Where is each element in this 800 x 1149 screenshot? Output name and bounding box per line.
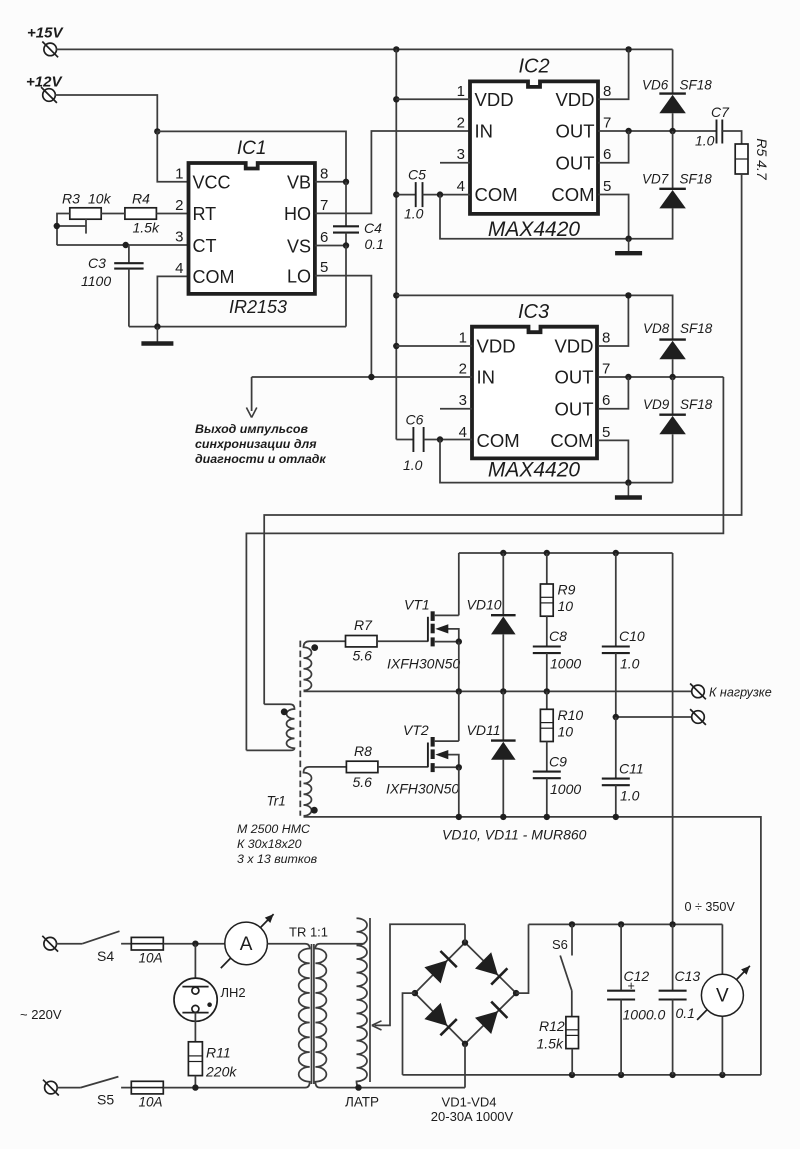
- label 0-350V: [685, 900, 736, 914]
- svg-text:4: 4: [175, 260, 183, 277]
- resistor R3 (trimmer): [54, 191, 112, 246]
- svg-text:6: 6: [602, 392, 610, 409]
- switch S6: [552, 924, 572, 1016]
- svg-text:VD11: VD11: [467, 722, 501, 738]
- wire IC2 COM rail: [440, 195, 673, 242]
- resistor R9: [540, 553, 575, 647]
- wire CT node: [57, 242, 189, 248]
- svg-text:0.1: 0.1: [365, 236, 384, 252]
- terminal mains upper: [42, 936, 58, 952]
- svg-text:IR2153: IR2153: [229, 297, 287, 317]
- IC2 pin labels: [457, 83, 612, 205]
- wire +12V to VCC: [157, 131, 188, 181]
- svg-text:6: 6: [320, 229, 328, 246]
- svg-text:C10: C10: [619, 628, 645, 644]
- capacitor C6: [396, 412, 472, 474]
- svg-text:10: 10: [558, 598, 574, 614]
- terminal load upper: [690, 684, 706, 700]
- svg-text:R9: R9: [558, 582, 576, 598]
- wire fuse to ammeter: [163, 941, 225, 947]
- TR primary winding: [299, 944, 310, 1088]
- wire LO to IC3 IN: [315, 276, 372, 377]
- Tr1 secondary winding 1: [304, 641, 346, 690]
- svg-text:1100: 1100: [81, 273, 111, 289]
- svg-text:R3: R3: [62, 191, 80, 207]
- svg-text:5: 5: [603, 178, 611, 195]
- svg-text:VT1: VT1: [404, 597, 430, 613]
- svg-text:IXFH30N50: IXFH30N50: [387, 656, 460, 672]
- wire IC2 pin3 stub: [440, 162, 470, 164]
- capacitor C13: [659, 924, 701, 1075]
- svg-text:1.0: 1.0: [620, 788, 640, 804]
- svg-text:0.1: 0.1: [676, 1005, 695, 1021]
- terminal +15V: [27, 25, 64, 58]
- resistor R11: [188, 1042, 237, 1088]
- svg-text:4: 4: [457, 178, 465, 195]
- svg-text:IC1: IC1: [237, 138, 267, 159]
- svg-text:VCC: VCC: [193, 173, 231, 193]
- svg-text:MAX4420: MAX4420: [488, 218, 581, 241]
- svg-text:К нагрузке: К нагрузке: [709, 686, 772, 700]
- svg-text:VDD: VDD: [554, 336, 593, 357]
- svg-text:COM: COM: [551, 184, 594, 205]
- diode VD11 MUR860: [467, 691, 516, 817]
- resistor R7: [346, 617, 428, 664]
- svg-text:C9: C9: [549, 754, 567, 770]
- op-amp IC1 IR2153 box: [189, 138, 315, 317]
- svg-text:Выход импульсов: Выход импульсов: [195, 422, 309, 436]
- svg-text:1: 1: [459, 330, 467, 347]
- svg-text:10: 10: [558, 724, 574, 740]
- wire IC3 COM rail: [440, 440, 673, 486]
- Tr1 winding data: [237, 822, 318, 866]
- svg-text:A: A: [240, 934, 253, 955]
- switch S5: [57, 1077, 119, 1108]
- resistor R8: [346, 743, 428, 790]
- lamp LN2: [174, 944, 246, 1042]
- wire IC3 pin3 stub: [440, 408, 472, 410]
- svg-text:5: 5: [602, 424, 610, 441]
- svg-text:+: +: [628, 979, 635, 993]
- svg-text:+12V: +12V: [26, 74, 63, 91]
- wire IC3 VDD pin1: [396, 345, 472, 347]
- svg-text:IN: IN: [477, 367, 496, 388]
- svg-text:5: 5: [320, 259, 328, 276]
- switch S4: [56, 931, 120, 964]
- wire ammeter to TR: [267, 943, 305, 945]
- svg-text:6: 6: [603, 146, 611, 163]
- LATR winding: [357, 918, 368, 1087]
- svg-text:5.6: 5.6: [353, 774, 373, 790]
- ammeter A: [221, 914, 274, 968]
- svg-text:VDD: VDD: [477, 336, 516, 357]
- svg-text:20-30A 1000V: 20-30A 1000V: [431, 1109, 514, 1124]
- load label: [709, 686, 772, 700]
- svg-text:VDD: VDD: [475, 89, 514, 110]
- svg-text:IXFH30N50: IXFH30N50: [386, 781, 459, 797]
- svg-text:2: 2: [459, 361, 467, 378]
- svg-text:C7: C7: [711, 104, 730, 120]
- svg-text:OUT: OUT: [554, 398, 593, 419]
- svg-text:~ 220V: ~ 220V: [20, 1007, 62, 1022]
- svg-text:COM: COM: [475, 184, 518, 205]
- resistor R12: [537, 1017, 579, 1075]
- driver IC3 MAX4420 box: [472, 301, 597, 482]
- svg-text:OUT: OUT: [555, 152, 594, 173]
- svg-text:VD8: VD8: [643, 321, 670, 336]
- capacitor C12: [607, 924, 665, 1075]
- svg-text:VS: VS: [287, 236, 311, 256]
- svg-text:COM: COM: [193, 267, 235, 287]
- svg-text:IC2: IC2: [518, 56, 549, 78]
- svg-text:8: 8: [320, 165, 328, 182]
- svg-text:S4: S4: [97, 948, 114, 964]
- svg-text:LO: LO: [287, 266, 311, 286]
- svg-text:1.5k: 1.5k: [133, 220, 160, 236]
- svg-text:VD6: VD6: [642, 78, 669, 93]
- capacitor C7: [695, 104, 742, 149]
- wire IC3 VDD pin8 rail: [396, 292, 672, 346]
- wire IC3 IN pin2: [252, 374, 472, 380]
- svg-text:1000: 1000: [550, 781, 581, 797]
- ground IC1: [141, 327, 173, 344]
- svg-text:1.0: 1.0: [695, 133, 715, 149]
- svg-text:10k: 10k: [88, 191, 112, 207]
- diode VD9 SF18: [643, 377, 713, 483]
- fuse FU2 10A: [121, 1081, 163, 1109]
- svg-text:1: 1: [175, 165, 183, 182]
- svg-text:1000.0: 1000.0: [623, 1007, 666, 1023]
- svg-text:C13: C13: [675, 968, 701, 984]
- svg-text:V: V: [716, 986, 729, 1007]
- svg-text:1.0: 1.0: [403, 457, 423, 473]
- capacitor C11: [602, 717, 644, 817]
- svg-text:VDD: VDD: [555, 89, 594, 110]
- svg-text:CT: CT: [193, 236, 217, 256]
- wire bridge bottom to LATR line: [464, 1044, 466, 1088]
- svg-text:3: 3: [457, 146, 465, 163]
- svg-text:7: 7: [603, 115, 611, 132]
- svg-text:VD10, VD11 - MUR860: VD10, VD11 - MUR860: [442, 827, 587, 843]
- svg-text:+15V: +15V: [27, 25, 64, 42]
- wire R5 to Tr1 primary top: [264, 174, 741, 704]
- terminal load lower: [690, 709, 706, 725]
- svg-text:R8: R8: [354, 743, 372, 759]
- svg-text:1: 1: [457, 83, 465, 100]
- wire mid rail to load: [304, 688, 693, 694]
- wire IC2 OUT pin7: [598, 128, 717, 134]
- wire COM to ground: [129, 276, 346, 329]
- svg-text:Tr1: Tr1: [267, 794, 286, 809]
- rectifier note: [442, 827, 587, 843]
- wire DC- rail: [403, 1072, 761, 1078]
- svg-text:C11: C11: [619, 761, 644, 777]
- transformer Tr1 core: [299, 641, 301, 816]
- svg-text:TR 1:1: TR 1:1: [289, 925, 328, 940]
- svg-text:3 х 13 витков: 3 х 13 витков: [237, 852, 318, 866]
- wire voltmeter column: [721, 924, 723, 1075]
- svg-text:R5 4.7: R5 4.7: [754, 138, 770, 180]
- wire VS pin6: [315, 242, 349, 326]
- svg-text:ЛН2: ЛН2: [221, 985, 246, 1000]
- svg-text:синхронизации для: синхронизации для: [195, 437, 317, 451]
- wire DC+ bus: [529, 921, 723, 927]
- wire bridge top feed: [464, 924, 466, 942]
- svg-text:1000: 1000: [550, 656, 581, 672]
- svg-text:220k: 220k: [205, 1064, 237, 1080]
- LATR wiper arrow: [372, 924, 465, 1030]
- svg-text:8: 8: [603, 83, 611, 100]
- ground IC2: [615, 239, 642, 254]
- TR core: [312, 944, 314, 1084]
- svg-text:ЛАТР: ЛАТР: [345, 1095, 379, 1110]
- svg-text:SF18: SF18: [680, 397, 713, 412]
- fuse FU1 10A: [121, 937, 163, 965]
- svg-text:10A: 10A: [139, 1095, 163, 1110]
- svg-text:3: 3: [459, 392, 467, 409]
- transformer TR label: [289, 925, 328, 940]
- wire IC3 OUT pin6: [598, 377, 628, 409]
- svg-text:MAX4420: MAX4420: [488, 459, 581, 482]
- LATR label: [345, 1095, 379, 1110]
- capacitor C5: [396, 167, 470, 222]
- capacitor C10: [602, 553, 645, 717]
- capacitor C3: [81, 245, 144, 327]
- svg-text:10A: 10A: [139, 951, 163, 966]
- wire bus to DC+ column: [672, 553, 674, 924]
- svg-text:C3: C3: [88, 255, 106, 271]
- LATR core: [369, 918, 371, 1082]
- terminal +12V: [26, 74, 63, 103]
- resistor R10: [540, 691, 583, 771]
- svg-text:М 2500 НМС: М 2500 НМС: [237, 822, 311, 836]
- wire IC3 OUT to Tr1 primary bottom: [246, 377, 723, 750]
- svg-text:VD1-VD4: VD1-VD4: [442, 1095, 497, 1110]
- svg-text:C6: C6: [406, 412, 424, 428]
- wire IC2 VDD pin1: [396, 98, 470, 100]
- wire +15V column: [393, 49, 399, 439]
- bridge rectifier VD1-VD4: [412, 939, 520, 1047]
- svg-text:OUT: OUT: [554, 367, 593, 388]
- svg-text:R12: R12: [539, 1018, 565, 1034]
- svg-text:0 ÷ 350V: 0 ÷ 350V: [685, 900, 736, 914]
- Tr1 secondary winding 2: [304, 767, 347, 816]
- svg-text:VD9: VD9: [643, 397, 670, 412]
- wire VT2 source to bottom rail: [458, 767, 460, 817]
- IC3 pin labels: [459, 330, 611, 452]
- wire bottom line to bridge: [320, 1084, 465, 1090]
- wire HO to IC2 IN: [315, 131, 470, 213]
- svg-text:VT2: VT2: [403, 722, 429, 738]
- diode VD6 SF18: [642, 49, 712, 131]
- wire VT1 drain to bus: [458, 553, 460, 615]
- svg-text:S5: S5: [97, 1092, 114, 1108]
- svg-text:C5: C5: [408, 167, 426, 183]
- svg-text:SF18: SF18: [680, 321, 713, 336]
- svg-text:7: 7: [320, 197, 328, 214]
- svg-text:C8: C8: [549, 628, 567, 644]
- label mains: [20, 1007, 62, 1022]
- terminal mains lower: [43, 1080, 59, 1096]
- transistor VT2 IXFH30N50: [386, 722, 462, 797]
- wire load lower: [613, 714, 693, 720]
- svg-text:IC3: IC3: [518, 301, 549, 323]
- wire top bus: [459, 550, 673, 556]
- svg-text:3: 3: [175, 229, 183, 246]
- svg-text:RT: RT: [193, 204, 217, 224]
- svg-text:1.0: 1.0: [404, 206, 424, 222]
- svg-text:2: 2: [175, 197, 183, 214]
- svg-text:2: 2: [457, 115, 465, 132]
- svg-text:5.6: 5.6: [353, 648, 373, 664]
- svg-text:SF18: SF18: [680, 172, 713, 187]
- Tr1 label: [267, 794, 286, 809]
- sync output arrow: [246, 377, 256, 418]
- driver IC2 MAX4420 box: [470, 56, 598, 242]
- ground IC3: [615, 483, 642, 498]
- bridge labels: [431, 1095, 514, 1125]
- wire VT1 source to mid rail: [458, 642, 460, 692]
- wire bridge DC-: [403, 993, 415, 1075]
- svg-text:C4: C4: [364, 220, 382, 236]
- svg-text:COM: COM: [550, 430, 593, 451]
- svg-text:R11: R11: [206, 1045, 231, 1061]
- wire +12V feed: [55, 95, 161, 135]
- svg-text:R7: R7: [354, 617, 373, 633]
- wire +12V to VB: [157, 131, 346, 181]
- capacitor C9: [533, 754, 582, 817]
- Tr1 primary winding: [246, 704, 294, 750]
- svg-text:SF18: SF18: [680, 78, 713, 93]
- wire bridge DC+: [516, 924, 528, 993]
- svg-text:7: 7: [602, 361, 610, 378]
- svg-text:HO: HO: [284, 204, 311, 224]
- resistor R4: [101, 191, 188, 236]
- wire VB pin8: [315, 179, 349, 185]
- capacitor C8: [533, 628, 582, 691]
- svg-text:R10: R10: [558, 707, 584, 723]
- sync output text: [195, 422, 326, 466]
- resistor R5: [735, 138, 770, 180]
- diode VD10 MUR860: [467, 553, 516, 691]
- svg-text:1.5k: 1.5k: [537, 1036, 564, 1052]
- IC1 pin labels: [175, 165, 328, 287]
- svg-text:8: 8: [602, 330, 610, 347]
- wire VT2 drain to mid rail: [458, 691, 460, 741]
- capacitor C4: [333, 182, 384, 252]
- TR secondary winding: [315, 944, 364, 1088]
- svg-text:VB: VB: [287, 173, 311, 193]
- wire bottom rail: [304, 814, 761, 1075]
- svg-text:R4: R4: [132, 191, 150, 207]
- svg-text:OUT: OUT: [555, 121, 594, 142]
- wire +15V rail: [56, 46, 673, 52]
- svg-text:S6: S6: [552, 937, 568, 952]
- svg-text:VD10: VD10: [467, 597, 502, 613]
- wire IC2 OUT pin6: [598, 131, 629, 163]
- diode VD7 SF18: [642, 131, 712, 208]
- svg-text:1.0: 1.0: [620, 656, 640, 672]
- wire IC2 VDD pin8: [598, 49, 629, 99]
- svg-text:IN: IN: [475, 121, 494, 142]
- svg-text:диагности и отладк: диагности и отладк: [195, 452, 326, 466]
- voltmeter V: [697, 966, 750, 1020]
- svg-text:4: 4: [459, 424, 467, 441]
- svg-text:К 30х18х20: К 30х18х20: [237, 837, 302, 851]
- wire S5 to TR: [163, 1084, 305, 1090]
- svg-text:COM: COM: [477, 430, 520, 451]
- wire IC3 OUT pin7: [598, 374, 723, 380]
- svg-text:VD7: VD7: [642, 172, 669, 187]
- transistor VT1 IXFH30N50: [387, 597, 462, 672]
- diode VD8 SF18: [643, 321, 713, 377]
